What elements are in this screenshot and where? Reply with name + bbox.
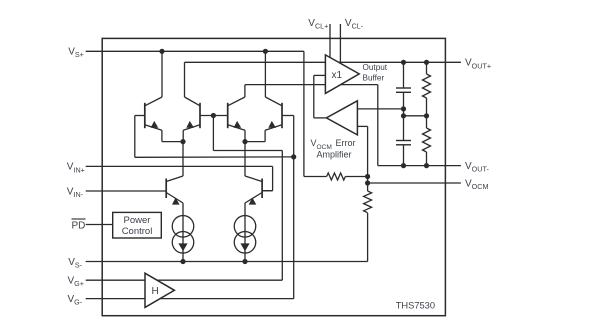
pin label VG- — [68, 294, 83, 307]
transistor Q6 (input stage right) — [245, 176, 262, 205]
svg-text:Buffer: Buffer — [363, 73, 385, 82]
node sense lower — [401, 113, 406, 118]
svg-text:Power: Power — [124, 215, 151, 226]
wire pair1 base link — [200, 115, 228, 117]
node pair1 emitter junction — [180, 139, 185, 144]
transistor Q4 (pair2 right) — [265, 97, 282, 130]
node I2 / VS- — [242, 259, 247, 264]
svg-text:x1: x1 — [332, 70, 343, 81]
wire VOCM rail — [368, 182, 461, 184]
wire Q4 emitter path — [245, 130, 265, 141]
wire Q2 emitter drop — [182, 130, 184, 141]
wire C1 top lead — [403, 62, 405, 88]
pin label VCL+ — [308, 18, 328, 31]
IC boundary box THS7530 — [102, 38, 445, 315]
wire VG+ through H to feedback riser — [86, 151, 283, 281]
wire Q1 collector riser — [161, 51, 163, 97]
wire Q2 collector riser — [184, 62, 186, 97]
pin label VIN- — [67, 186, 84, 199]
amplifier U2 VOCM error amplifier — [326, 101, 357, 135]
capacitor C1 — [396, 88, 411, 92]
current source I2 — [234, 203, 256, 262]
node shared base Q2/Q3 — [211, 113, 216, 118]
pin label PD with overline — [72, 219, 86, 231]
wire C1 bottom lead — [403, 92, 405, 109]
node sense / R4 — [424, 113, 429, 118]
pin label VS+ — [68, 47, 84, 60]
node pair2 emitter junction — [242, 139, 247, 144]
svg-text:PD: PD — [72, 220, 86, 231]
resistor R4 (sense to VOUT-) — [423, 116, 431, 166]
wire Q1 base path — [135, 116, 294, 158]
label VOCM Error Amplifier — [311, 138, 356, 159]
capacitor C2 — [396, 116, 411, 166]
svg-text:Amplifier: Amplifier — [316, 149, 351, 159]
node VOUT- / R4 — [424, 163, 429, 168]
wire PD — [86, 224, 113, 226]
node VOUT+ / C1 — [401, 60, 406, 65]
wire VIN- — [86, 190, 167, 192]
transistor Q2 (pair1 right) — [183, 97, 200, 130]
wire error amp input2 (VOCM) — [357, 126, 367, 176]
node sense upper — [401, 106, 406, 111]
node VOCM pin junction — [365, 180, 370, 185]
transistor Q1 (pair1 left) — [145, 97, 162, 130]
wire VOUT- rail — [378, 165, 461, 167]
wire VG- through H to feedback riser — [86, 157, 294, 299]
svg-text:H: H — [152, 286, 159, 297]
pin label VCL- — [345, 18, 364, 31]
node VS+ / Q1 collector — [159, 49, 164, 54]
node VOCM divider top — [365, 174, 370, 179]
transistor Q5 (input stage left) — [166, 176, 183, 205]
node VS+ / Q4 collector — [263, 49, 268, 54]
pin label VIN+ — [67, 162, 85, 175]
node VOUT+ / R3 — [424, 60, 429, 65]
amplifier U3 gain control H — [145, 273, 174, 307]
wire VIN+ — [86, 166, 273, 190]
wire VS- rail — [86, 261, 368, 263]
wire VS+ rail — [86, 50, 304, 52]
wire error amp input1 (sense) — [357, 108, 403, 110]
wire VOCM node link — [367, 177, 369, 184]
pin label VS- — [68, 257, 82, 270]
wire sense link — [403, 109, 405, 116]
wire VCL- into output buffer — [339, 24, 341, 64]
wire collector line to VOUT+ — [185, 61, 461, 63]
svg-text:Control: Control — [122, 226, 153, 237]
wire Q3 collector riser — [244, 85, 246, 97]
power control block — [113, 212, 162, 238]
wire Q6 base — [262, 190, 273, 192]
wire Q4 collector riser — [264, 51, 266, 97]
pin label VOCM — [465, 178, 488, 191]
transistor Q3 (pair2 left) — [228, 97, 245, 130]
pin label VG+ — [68, 276, 84, 289]
svg-text:Output: Output — [363, 63, 388, 72]
resistor R3 (VOUT+ to sense) — [423, 62, 431, 116]
node I1 / VS- — [180, 259, 185, 264]
current source I1 — [172, 203, 194, 262]
wire VCL+ into output buffer — [329, 24, 331, 58]
wire error amp output to buffer — [314, 75, 327, 118]
wire VOUT- drop — [377, 85, 379, 166]
wire collector line to VOUT- (upper run) — [245, 84, 378, 86]
wire sense crossbar — [404, 115, 427, 117]
resistor R2 (VOCM node to VS-) — [364, 183, 372, 262]
label Output Buffer — [363, 63, 388, 82]
wire pair2 emitters to Q6 collector — [244, 142, 246, 176]
resistor R1 (VS+ to VOCM node) — [304, 173, 368, 180]
wire Q4 base path — [282, 116, 294, 157]
pin label VOUT- — [465, 161, 489, 174]
node base return junction — [291, 154, 296, 159]
amplifier U1 output buffer x1 — [325, 55, 359, 94]
node VOUT- / C2 — [401, 163, 406, 168]
svg-text:THS7530: THS7530 — [396, 301, 435, 311]
wire Q1 emitter path — [162, 130, 183, 141]
label THS7530 — [396, 301, 435, 311]
wire Q3 emitter drop — [244, 130, 246, 141]
wire VS+ drop to divider — [303, 51, 305, 176]
wire pair1 emitters to Q5 collector — [182, 142, 184, 176]
svg-text:Error: Error — [336, 138, 356, 148]
wire shared base drop — [212, 116, 214, 151]
pin label VOUT+ — [465, 58, 491, 71]
